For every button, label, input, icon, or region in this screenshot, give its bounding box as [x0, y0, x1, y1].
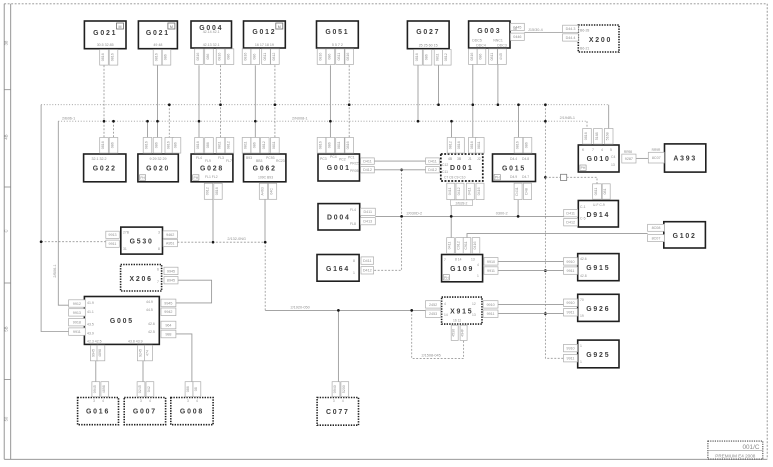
wire G001 D412 to D001 D412	[374, 169, 425, 171]
svg-text:2/B06-1: 2/B06-1	[62, 116, 75, 120]
wire dashed riser x=401.6 (D412 net to G164)	[374, 170, 402, 270]
svg-text:PH: PH	[495, 176, 500, 180]
border zone tick 4	[4, 378, 11, 380]
svg-text:C4: C4	[611, 155, 615, 159]
svg-text:D412: D412	[428, 168, 437, 172]
svg-text:3B: 3B	[457, 157, 462, 161]
svg-text:G015: G015	[502, 165, 526, 172]
wire G003 column 1 (to D001 pin3)	[472, 64, 474, 137]
pin 9912 of G005 left	[69, 300, 86, 307]
connector G003	[469, 21, 510, 48]
svg-text:13: 13	[471, 258, 475, 262]
junction stub/bus B 1	[112, 120, 115, 123]
junction bus C corner	[264, 241, 267, 244]
svg-text:G005: G005	[110, 318, 134, 325]
svg-text:BB3: BB3	[256, 159, 263, 163]
svg-text:PC93: PC93	[266, 156, 275, 160]
pin 0816 of G012	[242, 49, 251, 65]
pin 474 of G005 bottom	[145, 345, 153, 361]
wire G027 column 2	[438, 65, 440, 104]
svg-text:0816: 0816	[101, 53, 105, 61]
border frame bottom	[4, 458, 767, 460]
svg-text:44.5: 44.5	[146, 308, 153, 312]
svg-text:0411: 0411	[448, 242, 452, 250]
svg-text:G926: G926	[586, 306, 610, 313]
bus C 2/132-0NG (y=242.2)	[177, 242, 265, 310]
junction riser545/bus B	[544, 120, 547, 123]
svg-text:0416: 0416	[477, 187, 481, 195]
pin D412 of G164	[361, 267, 374, 274]
pin 0812 of G028	[225, 138, 234, 154]
svg-text:12: 12	[472, 302, 476, 306]
svg-text:2/B28-2: 2/B28-2	[456, 201, 468, 205]
pin 9911 of G109	[484, 267, 498, 275]
ground G062	[244, 154, 286, 182]
svg-text:4: 4	[196, 399, 198, 403]
svg-text:5168: 5168	[595, 132, 599, 140]
svg-text:D914: D914	[586, 212, 610, 219]
svg-text:4898: 4898	[98, 349, 102, 357]
pin 9942 of G005 right	[161, 308, 176, 316]
pin 0816 of G001	[345, 138, 354, 154]
wire G005 988 to G008	[176, 334, 192, 382]
svg-text:0816: 0816	[415, 53, 419, 61]
pin 9910 of G915	[564, 258, 578, 265]
ground G001	[318, 154, 360, 181]
label 2/B06-1 on bus B	[62, 116, 75, 120]
pin 086 of G012	[251, 49, 260, 65]
svg-text:D411: D411	[566, 212, 575, 216]
pin 8945 of X206	[164, 277, 178, 284]
svg-text:43.9: 43.9	[87, 332, 94, 336]
pin 0816 of G021	[100, 50, 109, 66]
svg-text:G016: G016	[86, 409, 110, 416]
wire G003 to X200 J15/30-4	[524, 32, 562, 34]
svg-text:42.13 32.1: 42.13 32.1	[203, 43, 220, 47]
pin D411 of G015 bottom	[514, 183, 522, 199]
svg-text:B93: B93	[246, 156, 252, 160]
svg-text:G164: G164	[326, 266, 350, 273]
label J15/30-4	[528, 28, 543, 32]
svg-text:25 25 60 15: 25 25 60 15	[419, 44, 438, 48]
svg-text:42.6: 42.6	[148, 322, 155, 326]
pin 0816 of G021	[109, 50, 118, 66]
wire G015 bottom pin to bus D	[517, 200, 519, 217]
svg-text:41.1: 41.1	[87, 310, 94, 314]
svg-text:2452: 2452	[429, 303, 437, 307]
svg-text:0811: 0811	[244, 141, 248, 149]
svg-text:494F: 494F	[461, 328, 465, 337]
svg-text:4: 4	[102, 399, 104, 403]
pin 086 of G020	[172, 138, 181, 154]
svg-text:0811: 0811	[337, 141, 341, 149]
junction x=451.2 on bus D	[450, 215, 453, 218]
svg-text:43.8 43.9: 43.8 43.9	[128, 340, 143, 344]
connector G051	[317, 21, 359, 48]
svg-text:042: 042	[147, 386, 151, 392]
pin 5168 of G010	[594, 129, 603, 145]
pin 4898 of G005 bottom	[97, 345, 105, 361]
wire G005 to G007	[142, 361, 144, 382]
zone label 5B	[4, 326, 9, 331]
wire G109 pin3 to G102	[467, 234, 648, 238]
svg-text:8 14: 8 14	[455, 258, 462, 262]
svg-text:9945: 9945	[164, 301, 172, 305]
pin 9945 of G005 right	[161, 299, 176, 307]
pin 08 of G008	[193, 382, 201, 397]
wire bus B drop to G010 pin	[586, 121, 588, 128]
pin 0412 of D001 bottom	[456, 183, 464, 199]
svg-text:0945: 0945	[93, 385, 97, 393]
junction riser545 G926 branch	[544, 312, 547, 315]
svg-text:D411: D411	[515, 187, 519, 195]
svg-text:5 5 7 2: 5 5 7 2	[332, 43, 343, 47]
wire G109 9910 to G915 9910	[498, 260, 564, 262]
svg-text:4B: 4B	[4, 134, 9, 139]
wire G004 column 2	[220, 65, 222, 137]
svg-text:G915: G915	[586, 265, 610, 272]
label 2/1508-045	[422, 354, 441, 358]
svg-text:B6-28: B6-28	[580, 29, 589, 33]
svg-text:9945: 9945	[167, 269, 175, 273]
wire G027 column 1	[417, 65, 419, 121]
svg-text:D001: D001	[450, 165, 474, 172]
svg-text:086: 086	[525, 142, 529, 148]
svg-text:X206: X206	[129, 276, 152, 283]
svg-text:9911: 9911	[567, 269, 575, 273]
pin 086 of G021	[162, 50, 171, 66]
pin 9911 of G925	[564, 355, 578, 362]
svg-text:B6-21: B6-21	[580, 47, 589, 51]
svg-text:086: 086	[227, 54, 231, 60]
pin 4530 of X915 bottom	[451, 325, 458, 340]
bus D 2/030D-2 (y=216.4)	[375, 215, 563, 217]
pin 9945 of G005 bottom	[90, 345, 98, 361]
svg-text:0411: 0411	[448, 188, 452, 196]
svg-text:0816: 0816	[346, 53, 350, 61]
svg-text:M: M	[170, 25, 173, 29]
svg-text:001/C: 001/C	[742, 444, 759, 451]
svg-text:9287: 9287	[625, 157, 633, 161]
wire stub G022 pin2	[113, 121, 115, 137]
connector X915	[442, 297, 482, 324]
svg-text:42.8: 42.8	[580, 274, 587, 278]
svg-text:D48: D48	[525, 188, 529, 195]
svg-text:PR05: PR05	[350, 169, 359, 173]
svg-text:1: 1	[477, 274, 479, 278]
svg-text:D4.9: D4.9	[510, 175, 517, 179]
svg-text:49 48: 49 48	[153, 43, 162, 47]
svg-text:42.14 42.1: 42.14 42.1	[203, 30, 220, 34]
pin 0812 of D001	[447, 138, 456, 154]
wire bus A to G020 pin3	[168, 105, 170, 138]
connector G012	[244, 21, 286, 48]
svg-text:086: 086	[155, 142, 159, 148]
wire D001 label box to G109 pin1	[450, 206, 452, 238]
wire splice to D914 top	[545, 176, 560, 178]
junction G051/bus A	[348, 103, 351, 106]
connector G021 (second)	[138, 21, 177, 49]
svg-text:6: 6	[157, 268, 159, 272]
svg-text:FL8: FL8	[350, 222, 356, 226]
svg-text:086: 086	[206, 54, 210, 60]
pin 9918 of G005 left	[69, 319, 86, 326]
svg-text:43.5: 43.5	[87, 323, 94, 327]
svg-text:08: 08	[194, 387, 198, 391]
wire G012 column 1	[254, 65, 256, 137]
pin 086 of G020	[153, 138, 162, 154]
svg-text:D4.7: D4.7	[522, 175, 529, 179]
svg-text:DDC5: DDC5	[472, 39, 482, 43]
svg-text:C12: C12	[442, 163, 448, 167]
junction riser545 splice branch	[544, 176, 547, 179]
svg-text:086: 086	[327, 54, 331, 60]
wire C077 drop	[337, 310, 339, 382]
wire G028 bottom to bus C	[212, 200, 214, 243]
svg-text:3: 3	[187, 399, 189, 403]
pin 0816 of G004	[216, 49, 225, 65]
svg-text:PREMIUM E4 2008: PREMIUM E4 2008	[715, 454, 756, 459]
pin 0816 of G004	[195, 49, 204, 65]
pin 9913 of G005 left	[69, 309, 86, 316]
pin 2453 of X915	[426, 310, 441, 317]
wire bus B to D001 pin1	[451, 121, 453, 137]
pin D44.4 of X200	[563, 34, 579, 41]
svg-text:086: 086	[186, 386, 190, 392]
pin 9910 of G926	[564, 299, 578, 306]
svg-text:G027: G027	[416, 29, 440, 36]
svg-text:D4.8: D4.8	[522, 157, 529, 161]
pin 086 of G015	[523, 138, 532, 154]
svg-text:0811: 0811	[218, 141, 222, 149]
svg-text:2/N008-1: 2/N008-1	[292, 116, 308, 120]
pin 9287 of G010	[622, 154, 636, 163]
pin 0816 of G015	[514, 138, 523, 154]
svg-text:9911: 9911	[567, 311, 575, 315]
border margin inner line	[10, 4, 12, 460]
svg-text:4898: 4898	[102, 385, 106, 393]
svg-text:G012: G012	[252, 29, 276, 36]
svg-text:13: 13	[472, 313, 476, 317]
junction G015/bus A	[517, 103, 520, 106]
svg-text:D412: D412	[566, 221, 575, 225]
svg-text:PC3: PC3	[320, 157, 327, 161]
wire splice to D914 top 2	[567, 177, 597, 184]
wire G109 9911 to G915 9911	[498, 270, 564, 272]
svg-text:0811: 0811	[337, 53, 341, 61]
ground G007	[124, 398, 165, 425]
svg-text:NNC1: NNC1	[493, 39, 503, 43]
svg-text:3: 3	[158, 231, 160, 235]
svg-text:G109: G109	[450, 266, 474, 273]
svg-text:M: M	[119, 25, 122, 29]
zone label C	[4, 229, 9, 232]
pin 086 of G028	[205, 138, 214, 154]
junction D001/bus B	[450, 120, 453, 123]
pin 086 of G051	[326, 49, 335, 65]
junction G021a/bus B	[103, 120, 106, 123]
svg-text:086: 086	[425, 54, 429, 60]
svg-text:9918: 9918	[73, 321, 81, 325]
pin 042 of G007	[146, 382, 154, 397]
svg-text:A463: A463	[261, 187, 265, 195]
svg-text:G020: G020	[146, 165, 170, 172]
pin 086 of G022	[109, 138, 118, 154]
svg-text:M: M	[278, 25, 281, 29]
svg-text:G022: G022	[93, 165, 117, 172]
svg-text:G051: G051	[325, 29, 349, 36]
pin 9910 of G925	[564, 344, 578, 351]
svg-text:32.1 32.2: 32.1 32.2	[92, 157, 107, 161]
border zone tick 3	[4, 282, 11, 284]
svg-text:7: 7	[444, 258, 446, 262]
wire G003 column 2	[497, 64, 499, 104]
svg-text:70: 70	[580, 298, 584, 302]
svg-text:14: 14	[444, 313, 448, 317]
pin 0811 of G062	[242, 138, 251, 154]
svg-text:0816: 0816	[457, 141, 461, 149]
svg-text:0816: 0816	[155, 53, 159, 61]
svg-text:4: 4	[477, 263, 479, 267]
svg-text:9942: 9942	[164, 310, 172, 314]
pin 0816 of G022	[100, 138, 109, 154]
svg-text:PC4: PC4	[330, 155, 337, 159]
svg-text:PH: PH	[581, 166, 586, 170]
svg-text:X915: X915	[450, 309, 473, 316]
svg-text:D411: D411	[428, 160, 437, 164]
pin 8C07 of G102	[648, 235, 665, 242]
svg-text:PC2: PC2	[339, 158, 346, 162]
pin 0816 of G003	[469, 49, 478, 65]
svg-text:0912: 0912	[206, 187, 210, 195]
svg-text:DDC3: DDC3	[497, 44, 507, 48]
pin D411 of G164	[361, 257, 374, 264]
svg-text:086: 086	[206, 142, 210, 148]
label RR9R above A393 pin	[652, 148, 661, 152]
svg-text:9911: 9911	[567, 357, 575, 361]
svg-text:FL4: FL4	[196, 156, 202, 160]
splice connector S1	[561, 174, 567, 180]
ground G016	[78, 398, 119, 425]
ground distribution G109	[442, 255, 483, 282]
wire G004 column 1	[198, 65, 200, 137]
label RR98 above pin	[624, 150, 632, 154]
pin 0411 of D001 bottom	[447, 183, 455, 199]
pin 0446 of G003	[510, 33, 524, 40]
pin 9911 of G530	[106, 240, 120, 247]
ground G164	[317, 255, 359, 282]
border zone tick 1	[4, 89, 11, 91]
svg-text:0300-2: 0300-2	[496, 211, 508, 215]
pin 086 of G027	[423, 50, 432, 66]
ground G020	[138, 154, 178, 182]
svg-text:9910: 9910	[566, 260, 574, 264]
pin 8C08 of G102	[648, 224, 665, 231]
svg-text:8C07: 8C07	[652, 156, 661, 160]
svg-text:9911: 9911	[109, 242, 117, 246]
pin 0816 of G051	[317, 49, 326, 65]
svg-text:D411: D411	[364, 210, 373, 214]
svg-text:0812: 0812	[272, 53, 276, 61]
svg-text:0816: 0816	[218, 53, 222, 61]
wire G051 column 2	[348, 65, 350, 137]
pin D411 of D001	[426, 158, 440, 164]
junction G012/bus A	[274, 103, 277, 106]
svg-text:0446: 0446	[513, 35, 521, 39]
capacitor C077	[317, 398, 358, 426]
svg-text:0816: 0816	[319, 141, 323, 149]
junction stub/bus B 2	[146, 120, 149, 123]
svg-text:DDC4: DDC4	[476, 44, 486, 48]
svg-text:C077: C077	[326, 409, 350, 416]
svg-text:G001: G001	[327, 165, 351, 172]
junction bus E / C077	[337, 309, 340, 312]
svg-text:0245: 0245	[138, 385, 142, 393]
junction riser545/bus A	[544, 103, 547, 106]
svg-text:9911: 9911	[73, 330, 81, 334]
svg-text:7: 7	[157, 280, 159, 284]
svg-text:D412: D412	[363, 269, 372, 273]
svg-text:0811: 0811	[490, 53, 494, 61]
pin 0411 of G109 top	[447, 238, 455, 254]
svg-text:9911: 9911	[487, 269, 495, 273]
pin 0811 of G001	[336, 138, 345, 154]
svg-text:4B: 4B	[448, 157, 453, 161]
junction x=518.1 on bus D	[517, 215, 520, 218]
wire G051 column 1	[329, 65, 331, 137]
svg-text:086: 086	[252, 142, 256, 148]
wire G012 column 2	[274, 65, 276, 137]
svg-text:9910: 9910	[487, 260, 495, 264]
pin 0811 of D914 top	[593, 184, 602, 199]
svg-text:0812: 0812	[227, 141, 231, 149]
pin D411 of D004	[360, 208, 375, 215]
junction G028/bus C	[212, 241, 215, 244]
svg-text:0816: 0816	[319, 53, 323, 61]
label 2/132-0NG	[227, 237, 246, 241]
junction x=401.6 on D412 wire	[400, 168, 403, 171]
pin 0811 of G062	[271, 138, 280, 154]
svg-text:988: 988	[165, 332, 171, 336]
svg-text:C: C	[4, 229, 9, 232]
pin 0816 of D001	[456, 138, 465, 154]
junction G003/bus A 1	[471, 103, 474, 106]
junction riser545 G915 branch	[544, 269, 547, 272]
pin D411 of D914	[564, 209, 578, 216]
svg-text:FL9: FL9	[205, 159, 211, 163]
sensor G530	[121, 227, 163, 254]
svg-text:G003: G003	[477, 28, 501, 35]
svg-text:G007: G007	[133, 409, 157, 416]
svg-text:G925: G925	[586, 352, 610, 359]
pin 0816 of G028	[195, 138, 204, 154]
junction G004/bus A	[219, 103, 222, 106]
svg-text:J2: J2	[477, 157, 481, 161]
svg-text:0816: 0816	[584, 132, 588, 140]
connector G021 (left)	[84, 21, 126, 49]
title block 001/C PREMIUM E4 2008	[708, 441, 763, 459]
svg-text:964: 964	[165, 323, 171, 327]
svg-text:16 12: 16 12	[453, 319, 461, 323]
junction riser/G530 branch	[40, 240, 43, 243]
pin 086 of G004	[205, 49, 214, 65]
svg-text:5B: 5B	[4, 326, 9, 331]
pin 9910 of G109	[484, 258, 498, 266]
svg-text:0816: 0816	[470, 53, 474, 61]
svg-text:50: 50	[4, 416, 9, 421]
pin 04C of G062 bottom	[268, 183, 276, 199]
svg-text:9462: 9462	[166, 233, 174, 237]
